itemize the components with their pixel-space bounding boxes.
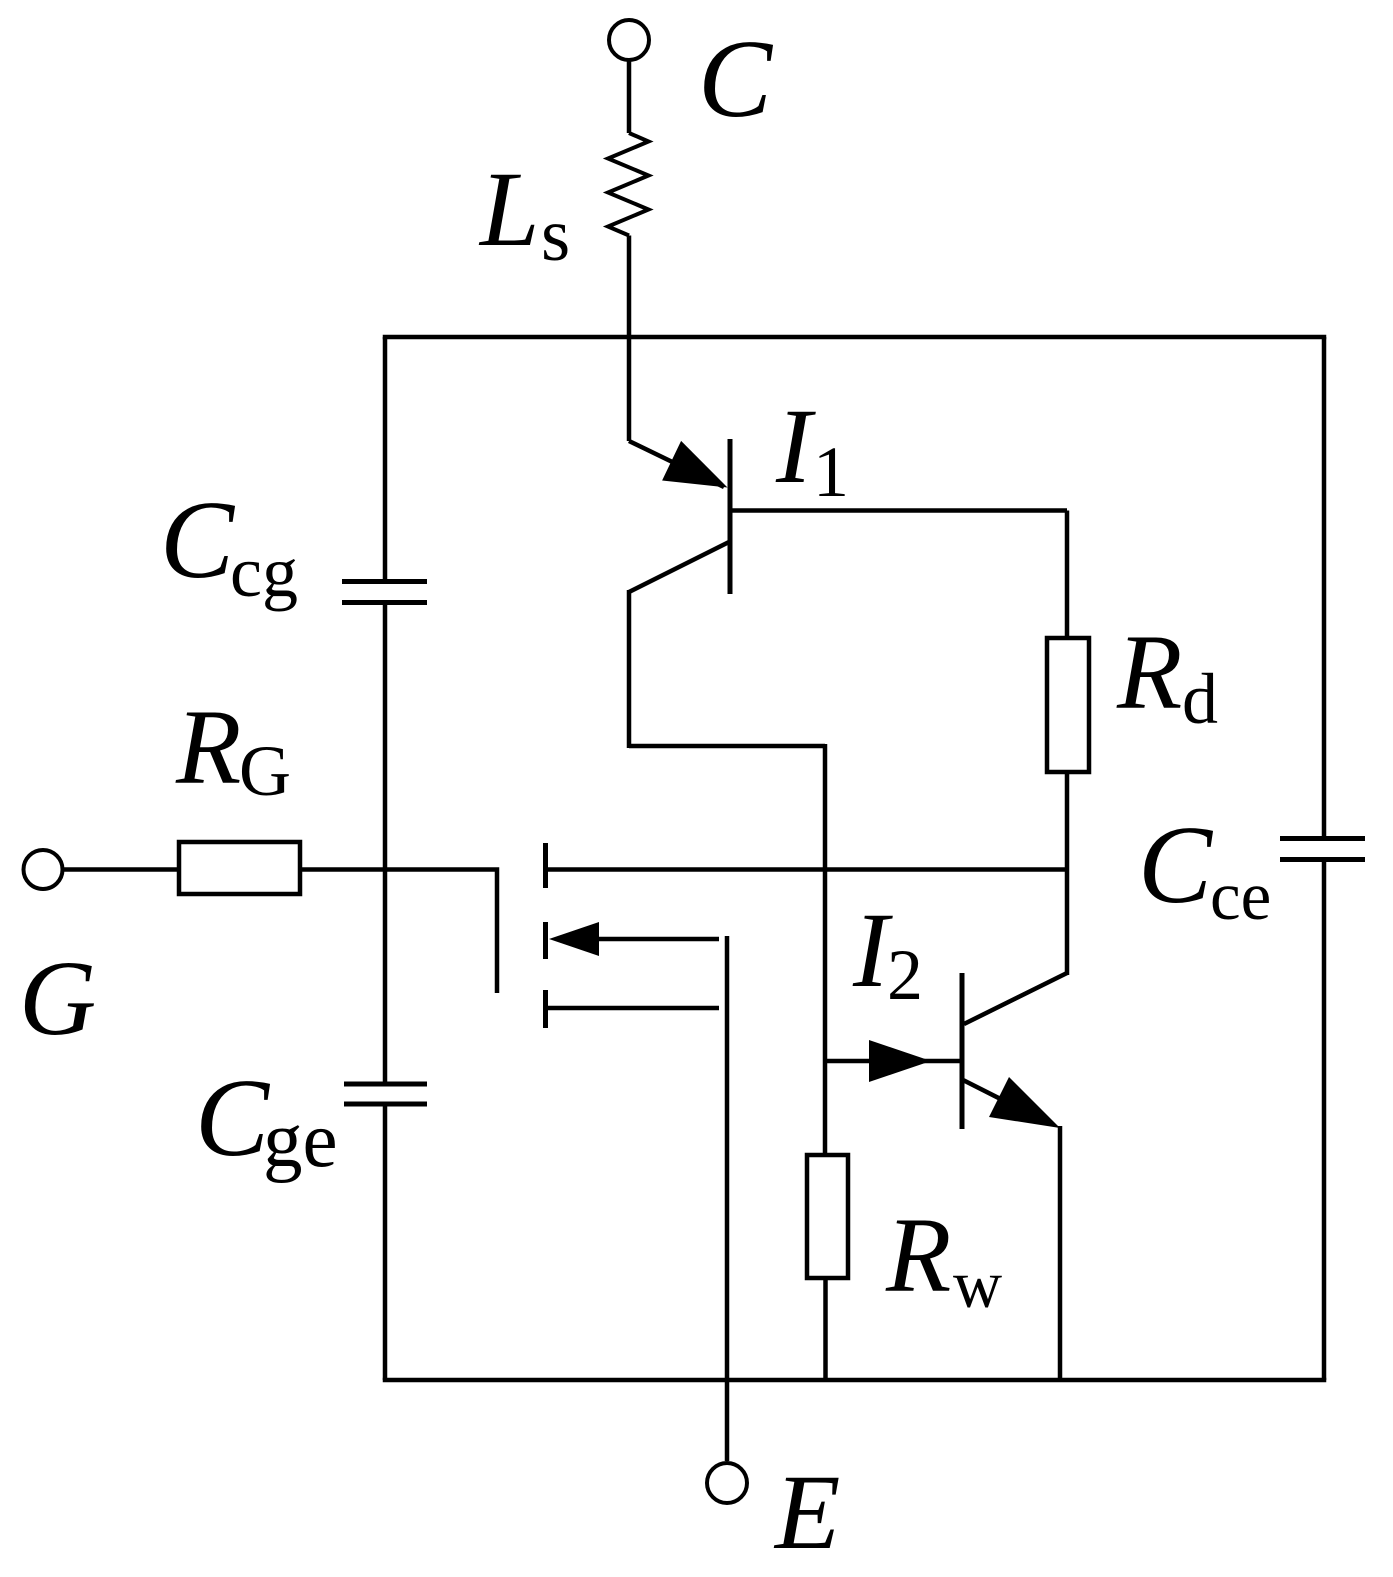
wire I1 base to Rd (730, 511, 1067, 639)
svg-text:G: G (19, 940, 96, 1058)
wire I2 emitter to box bottom (1058, 1126, 1063, 1380)
capacitor Cce (1138, 804, 1365, 934)
svg-text:d: d (1182, 659, 1218, 739)
svg-text:R: R (175, 689, 241, 807)
svg-text:2: 2 (887, 935, 923, 1015)
device boundary box left segments (interrupted by Ccg, Cge) (383, 337, 388, 1380)
MOSFET body arrow (549, 922, 719, 956)
svg-text:I: I (775, 388, 816, 506)
wire source/body node to terminal E (725, 936, 730, 1461)
svg-text:ge: ge (263, 1097, 338, 1184)
svg-text:R: R (885, 1197, 951, 1315)
MOSFET channel bar middle (body) (543, 922, 548, 959)
capacitor Cge (195, 1057, 427, 1184)
transistor I2 (NPN) (825, 892, 1067, 1129)
wire RG to MOSFET gate, gate electrode (300, 870, 497, 994)
wire Rw bottom to box bottom (823, 1278, 828, 1380)
svg-text:L: L (478, 151, 540, 269)
wire I1 collector down-left, across and down (node to drain, I2 base, Rw) (629, 542, 825, 1157)
terminal G (19, 850, 96, 1058)
svg-text:G: G (239, 731, 291, 811)
device boundary box top (385, 335, 1324, 340)
resistor RG (175, 689, 300, 894)
svg-text:C: C (698, 18, 774, 141)
wire MOSFET source line (546, 1006, 720, 1011)
resistor Rd (1047, 614, 1218, 772)
wire inductor to I1 emitter (crosses box top) (627, 236, 632, 442)
svg-text:1: 1 (813, 432, 849, 512)
wire Rd bottom to I2 collector (crosses drain line) (1065, 772, 1070, 975)
inductor Ls (478, 133, 649, 277)
wire G terminal to RG (63, 867, 180, 872)
device boundary box bottom (385, 1378, 1324, 1383)
svg-text:E: E (773, 1454, 840, 1572)
capacitor Ccg (160, 479, 427, 612)
transistor I1 (PNP) (629, 388, 849, 594)
device boundary box right segments (interrupted by Cce) (1322, 337, 1327, 1380)
MOSFET channel bar top (drain) (543, 843, 548, 888)
MOSFET channel bar bottom (source) (543, 990, 548, 1028)
terminal E (707, 1454, 840, 1572)
svg-text:C: C (195, 1057, 271, 1180)
wire MOSFET drain line (546, 867, 1068, 872)
svg-text:w: w (953, 1246, 1002, 1322)
svg-text:s: s (541, 194, 570, 277)
terminal C (609, 18, 774, 141)
svg-text:C: C (1138, 804, 1214, 927)
svg-text:R: R (1116, 614, 1182, 732)
svg-text:C: C (160, 479, 236, 602)
wire C terminal to inductor (627, 60, 632, 133)
svg-text:cg: cg (230, 532, 298, 612)
resistor Rw (807, 1155, 1002, 1322)
svg-text:ce: ce (1210, 858, 1271, 934)
